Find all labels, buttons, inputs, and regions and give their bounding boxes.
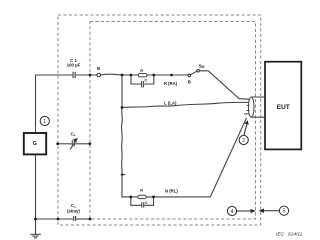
svg-text:B: B bbox=[188, 79, 191, 84]
svg-text:1: 1 bbox=[43, 119, 46, 125]
svg-text:(stray): (stray) bbox=[67, 209, 80, 214]
svg-text:C: C bbox=[145, 200, 148, 205]
svg-text:R: R bbox=[140, 69, 143, 73]
svg-text:EUT: EUT bbox=[277, 104, 290, 111]
svg-text:R: R bbox=[140, 188, 143, 192]
svg-text:L (LA): L (LA) bbox=[164, 100, 177, 105]
svg-text:Ca: Ca bbox=[71, 131, 76, 137]
svg-text:4: 4 bbox=[231, 209, 234, 215]
svg-text:C: C bbox=[144, 78, 147, 83]
svg-text:G: G bbox=[33, 141, 37, 147]
svg-text:5: 5 bbox=[283, 209, 286, 215]
svg-text:B: B bbox=[97, 66, 100, 71]
svg-text:100 µF: 100 µF bbox=[67, 63, 81, 68]
svg-text:R (RA): R (RA) bbox=[164, 81, 178, 86]
svg-text:2: 2 bbox=[242, 138, 245, 144]
svg-text:SW: SW bbox=[199, 63, 205, 69]
svg-text:N (RL): N (RL) bbox=[165, 188, 178, 193]
svg-text:IEC 614/11: IEC 614/11 bbox=[276, 232, 303, 238]
